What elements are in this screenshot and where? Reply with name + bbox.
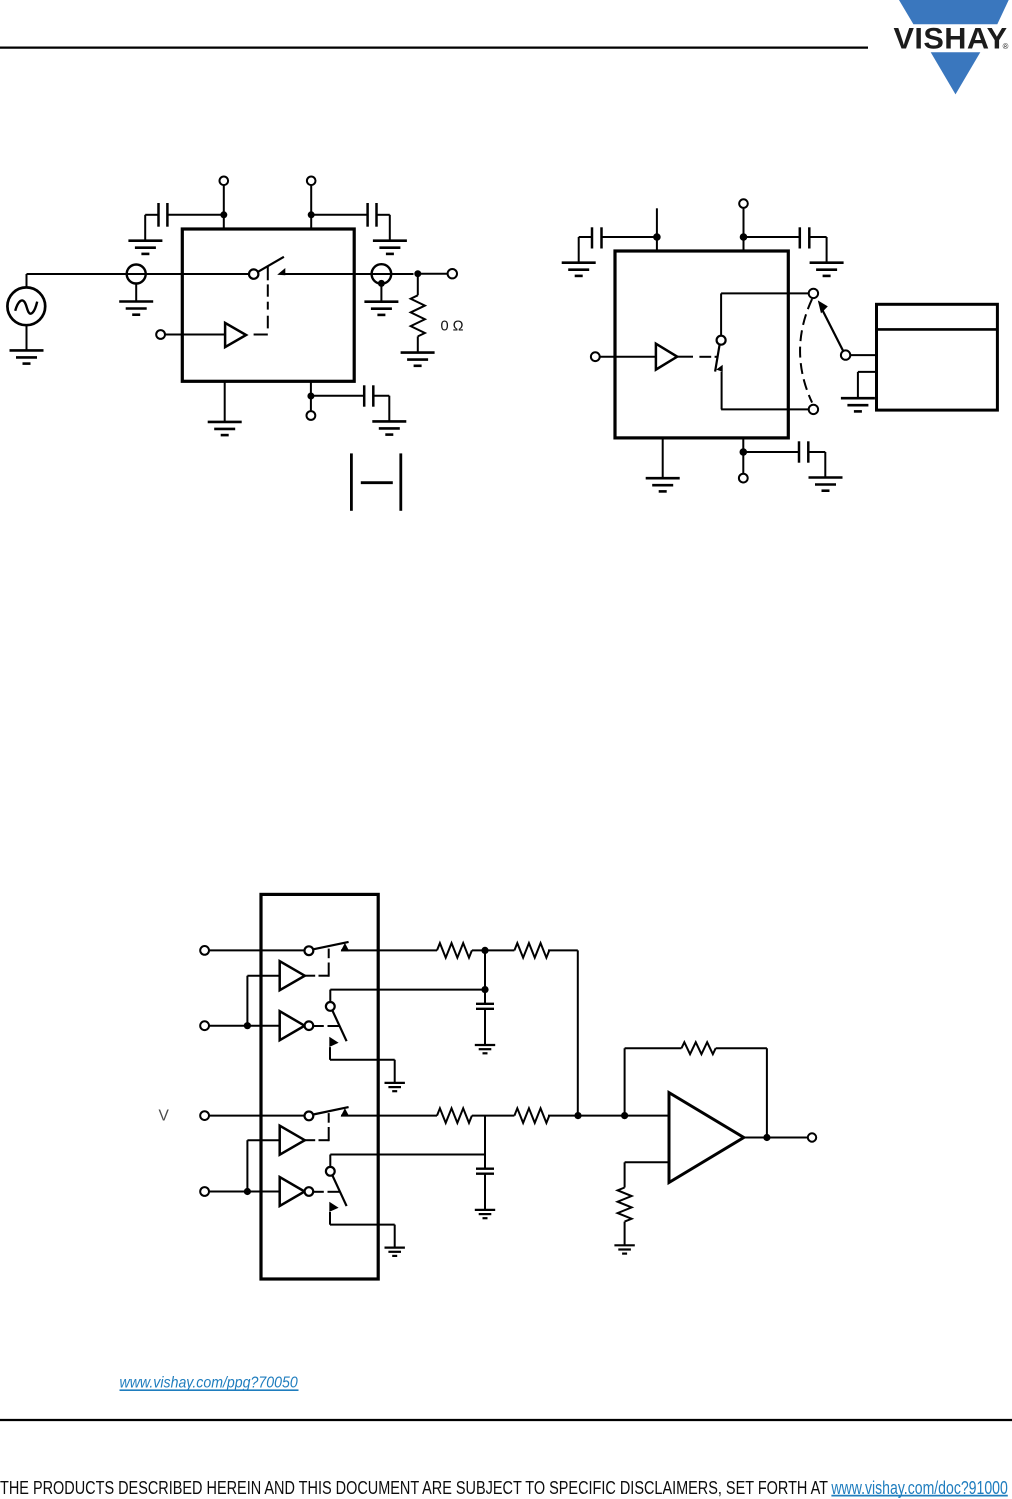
ground (bottom-left pin) — [208, 422, 242, 435]
junction summing node — [574, 1112, 581, 1119]
terminal input comp ch2 — [200, 1187, 209, 1196]
shunt switch fixed wire ch1 — [330, 1047, 395, 1083]
junction top-left — [220, 211, 227, 218]
ground (shunt switch) ch2 — [385, 1248, 405, 1256]
wire rail to capacitor ch2 — [330, 1154, 485, 1156]
wire bottom-center pin U2 — [742, 438, 744, 474]
junction bottom pin U2 — [740, 448, 748, 456]
ground (C1) — [128, 241, 162, 254]
capacitor C1 — [159, 203, 168, 227]
wire switch to resistor ch1 — [341, 949, 437, 951]
IC box U2 — [615, 251, 788, 438]
svg-text:®: ® — [1003, 42, 1009, 51]
svg-text:www.vishay.com/ppg?70050: www.vishay.com/ppg?70050 — [120, 1375, 298, 1392]
wire top-right pin U2 — [743, 208, 745, 250]
switch S1 pole — [249, 269, 258, 278]
wire resistor to node ch2 — [548, 1115, 578, 1117]
switch S1 lever — [258, 257, 284, 272]
IC box U1 — [182, 229, 354, 381]
switch pole ch1 — [305, 946, 314, 955]
ground (bottom-left pin U2) — [646, 478, 680, 491]
IC box U3 — [261, 894, 378, 1279]
resistor R series 1 ch2 — [437, 1108, 472, 1123]
wire top-right pin — [310, 185, 312, 228]
buffer driver inv ch1 — [280, 1011, 314, 1040]
junction V+ pin — [653, 233, 661, 241]
V label — [159, 1108, 170, 1125]
ground (C5) — [810, 263, 844, 276]
ground (filter capacitor) ch2 — [475, 1210, 495, 1218]
shunt switch pole ch1 — [326, 1002, 335, 1011]
terminal throw NC — [809, 405, 818, 414]
terminal V- pin top-right — [307, 177, 316, 186]
capacitor C2 — [368, 203, 377, 227]
svg-text:THE PRODUCTS DESCRIBED HEREIN: THE PRODUCTS DESCRIBED HEREIN AND THIS D… — [0, 1478, 828, 1498]
wire opamp output — [744, 1137, 808, 1139]
ground (filter capacitor) ch1 — [475, 1045, 495, 1053]
wire C1 to ground — [145, 215, 158, 241]
shunt switch lever ch1 — [332, 1010, 346, 1041]
wire rail to capacitor ch1 — [330, 989, 485, 991]
wire input to switch ch2 — [209, 1115, 305, 1117]
ground (RG) — [614, 1245, 634, 1253]
resistor 0 ohm — [411, 295, 425, 336]
shunt switch arrow ch1 — [329, 1037, 338, 1047]
switch arrow ch2 — [341, 1108, 350, 1116]
wire bottom-center pin — [310, 381, 312, 411]
wire probe to ground — [135, 284, 137, 302]
wire top-left pin — [223, 185, 225, 228]
pin stub V+ top-left — [656, 208, 658, 250]
wire resistor to ground — [417, 336, 419, 352]
external lever arrowhead — [818, 300, 828, 313]
wire input to switch ch1 — [209, 949, 305, 951]
svg-text:V: V — [159, 1108, 170, 1125]
wire to capacitor C4 — [602, 236, 657, 238]
wire C2 to ground — [377, 215, 390, 241]
junction top-right — [308, 211, 315, 218]
junction resistor node ch1 — [481, 947, 488, 954]
terminal top-right pin — [739, 199, 748, 208]
wire C4 to ground — [579, 237, 592, 263]
external pole — [841, 350, 850, 359]
ground (output probe) — [364, 302, 398, 315]
dashed control line inv ch1 — [313, 1025, 340, 1027]
ground (0 ohm) — [401, 353, 435, 366]
wire C3 to ground — [373, 396, 389, 422]
wire switch to resistor ch2 — [341, 1115, 437, 1117]
wire channel join vertical — [577, 950, 579, 1115]
buffer driver noninv ch2 — [280, 1126, 305, 1155]
junction input link ch2 — [244, 1188, 251, 1195]
wire probe output to ground — [380, 283, 382, 301]
wire bottom-left pin — [224, 381, 226, 422]
switch S2 lever — [715, 345, 720, 372]
dashed control line S1 — [254, 266, 268, 335]
wire opamp lower input — [625, 1162, 669, 1187]
dashed control line inv ch2 — [313, 1191, 340, 1193]
ground (C3) — [372, 421, 406, 434]
terminal throw NO — [809, 289, 818, 298]
op-amp U4 — [669, 1093, 744, 1183]
terminal opamp output — [808, 1133, 816, 1141]
Vishay logo lower triangle — [931, 52, 981, 94]
capacitor C4 — [592, 227, 602, 248]
ground (analyzer) — [841, 398, 875, 411]
shunt switch pole wire ch1 — [329, 990, 331, 1002]
wire AC source to stub — [26, 274, 28, 288]
junction below probe — [378, 280, 385, 287]
Vishay logo wordmark VISHAY — [894, 22, 1009, 55]
buffer driver A1 — [225, 323, 246, 347]
terminal input ch2 — [200, 1111, 209, 1120]
probe circle output side — [372, 264, 392, 284]
svg-text:0 Ω: 0 Ω — [441, 318, 464, 334]
shunt switch pole ch2 — [326, 1167, 335, 1176]
wire capacitor to ground ch1 — [484, 1009, 486, 1045]
wire to capacitor C2 — [311, 214, 367, 216]
resistor R series 1 ch1 — [437, 943, 472, 958]
capacitor C5 — [800, 227, 810, 248]
ground (source probe) — [119, 302, 153, 315]
dashed control line ch2 — [305, 1113, 329, 1141]
wire buffer input link ch2 — [247, 1140, 279, 1191]
buffer driver noninv ch1 — [280, 961, 305, 990]
header rule — [0, 46, 868, 48]
switch S1 arrow — [277, 268, 285, 275]
wire capacitor node ch2 — [484, 1116, 486, 1169]
capacitor legend symbol — [351, 453, 400, 510]
wire capacitor node ch1 — [484, 950, 486, 1003]
switch S2 pole — [717, 336, 726, 345]
label 0 ohm — [441, 318, 464, 334]
ground (C6) — [809, 478, 843, 491]
wire to capacitor C6 — [743, 451, 799, 453]
wire C6 to ground — [808, 452, 825, 477]
wire capacitor to ground ch2 — [484, 1174, 486, 1210]
terminal bottom pin U2 — [739, 474, 748, 483]
buffer driver inv ch2 — [280, 1177, 314, 1206]
wire buffer input link ch1 — [247, 976, 279, 1026]
wire pole to analyzer — [850, 354, 876, 356]
wire feedback up — [625, 1048, 682, 1115]
wire rail bottom U2 — [721, 408, 809, 410]
filter capacitor ch2 — [476, 1169, 494, 1174]
capacitor C3 — [364, 385, 373, 406]
switch pole ch2 — [305, 1112, 314, 1121]
network analyzer box — [877, 304, 998, 410]
wire between resistors ch2 — [472, 1115, 515, 1117]
switch lever ch2 — [313, 1107, 348, 1114]
wire rail top U2 — [721, 292, 809, 294]
junction opamp input node — [621, 1112, 628, 1119]
junction capacitor node ch1 — [481, 986, 488, 993]
wire junction to resistor — [417, 274, 419, 296]
wire AC source ground stub — [26, 325, 28, 350]
ground (C4) — [562, 263, 596, 276]
wire input comp ch1 — [209, 1025, 280, 1027]
capacitor C6 — [799, 441, 808, 462]
probe circle source side — [127, 265, 146, 284]
wire feedback to output — [716, 1048, 767, 1137]
wire logic input U2 — [600, 356, 656, 358]
junction bottom pin — [307, 393, 314, 400]
shunt switch arrow ch2 — [329, 1202, 338, 1212]
disclaimer link doc 91000 — [831, 1478, 1008, 1498]
junction top-right U2 — [740, 233, 748, 241]
wire resistor to node ch1 — [548, 949, 578, 951]
AC source VS — [7, 287, 45, 325]
external lever — [822, 309, 843, 351]
link ppg document — [120, 1375, 299, 1392]
switch arrow ch1 — [341, 943, 350, 951]
wire bottom-left pin U2 — [662, 438, 664, 478]
terminal input ch1 — [200, 946, 209, 955]
filter capacitor ch1 — [476, 1004, 494, 1009]
switch S2 pole wire — [720, 293, 722, 335]
wire summing to opamp node — [578, 1115, 669, 1117]
shunt switch pole wire ch2 — [329, 1155, 331, 1167]
switch S2 fixed contact — [721, 372, 723, 410]
junction output feedback — [763, 1134, 770, 1141]
wire junction to terminal — [418, 273, 448, 275]
terminal input comp ch1 — [200, 1021, 209, 1030]
terminal V+ pin top-left — [220, 177, 229, 186]
shunt switch fixed wire ch2 — [330, 1212, 395, 1248]
wire logic input — [165, 334, 225, 336]
shunt switch lever ch2 — [332, 1175, 346, 1206]
footer rule — [0, 1419, 1012, 1421]
wire S1 to output — [285, 273, 414, 275]
terminal logic input — [156, 330, 165, 339]
ground (AC source) — [10, 350, 44, 363]
wire analyzer ground bracket — [858, 372, 877, 398]
terminal logic input U2 — [591, 352, 600, 361]
Vishay logo upper triangle band — [899, 0, 1009, 24]
dashed travel arc — [800, 299, 812, 403]
junction input link ch1 — [244, 1022, 251, 1029]
buffer driver A2 — [656, 344, 677, 370]
resistor R series 2 ch2 — [514, 1108, 549, 1123]
feedback resistor RF — [682, 1042, 716, 1054]
wire main input — [27, 273, 250, 275]
dashed control line S2 — [677, 356, 718, 358]
wire to capacitor C3 — [311, 395, 364, 397]
wire RG to ground — [624, 1222, 626, 1246]
terminal bottom pin — [307, 411, 316, 420]
wire input comp ch2 — [209, 1191, 280, 1193]
wire C5 to ground — [809, 237, 826, 263]
junction output node — [414, 270, 421, 277]
switch S2 arrow — [716, 365, 723, 372]
wire to capacitor C5 — [744, 236, 800, 238]
switch lever ch1 — [313, 942, 348, 949]
wire to capacitor C1 — [167, 214, 223, 216]
ground (shunt switch) ch1 — [385, 1083, 405, 1091]
resistor R series 2 ch1 — [514, 943, 549, 958]
disclaimer text — [0, 1478, 828, 1498]
gain resistor RG — [618, 1188, 632, 1222]
svg-text:VISHAY: VISHAY — [894, 22, 1008, 55]
wire between resistors ch1 — [472, 949, 515, 951]
terminal output — [448, 269, 457, 278]
ground (C2) — [373, 241, 407, 254]
dashed control line ch1 — [305, 949, 329, 977]
